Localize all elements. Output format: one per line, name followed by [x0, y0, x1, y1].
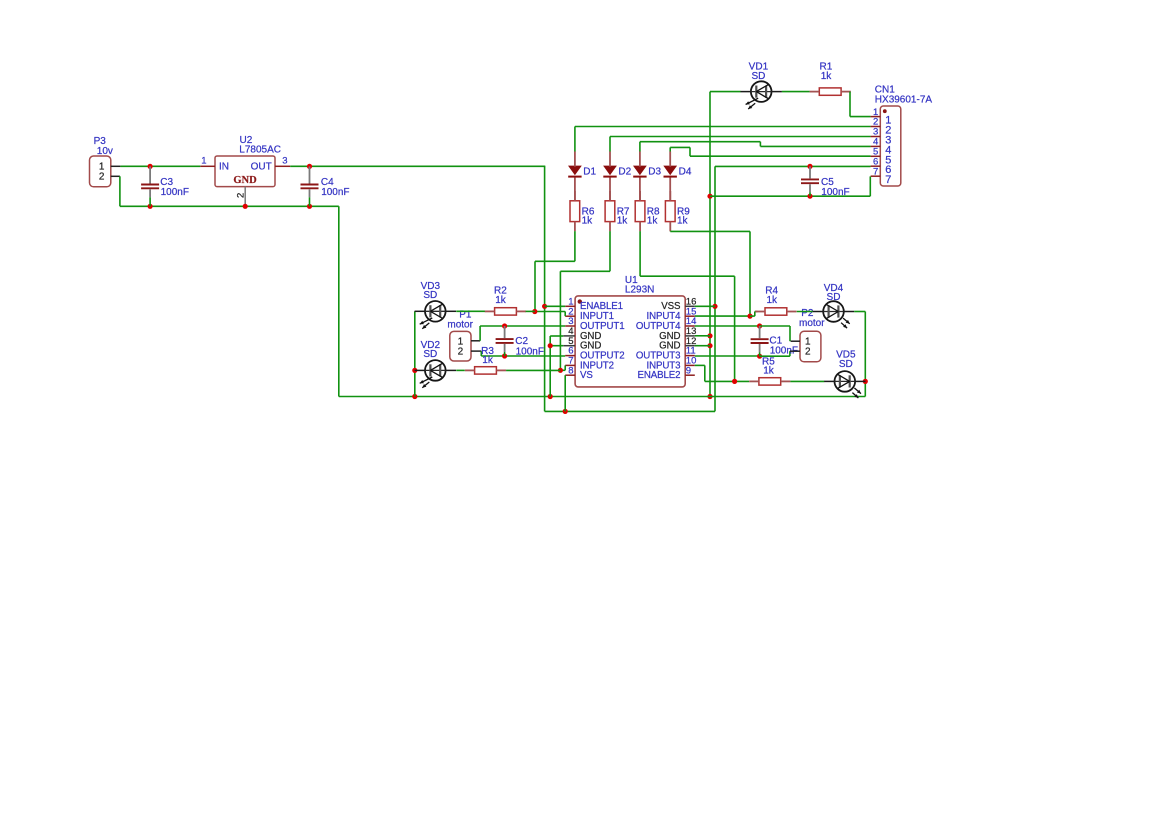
resistor R7	[605, 191, 630, 231]
diode D3	[633, 152, 662, 202]
wire	[550, 335, 563, 337]
wire	[456, 310, 485, 312]
wire	[695, 365, 749, 381]
wire	[709, 92, 711, 397]
wire	[414, 311, 416, 396]
resistor R2	[485, 286, 526, 316]
wire	[760, 326, 790, 341]
connector P1	[447, 310, 481, 361]
connector P3	[90, 136, 121, 187]
junction	[307, 204, 312, 209]
junction	[307, 164, 312, 169]
svg-text:SD: SD	[839, 359, 853, 370]
wire	[710, 91, 741, 93]
wire	[526, 310, 535, 312]
resistor R3	[465, 346, 506, 374]
LED VD2	[415, 340, 456, 388]
svg-text:2: 2	[805, 347, 811, 358]
capacitor C3	[141, 166, 189, 206]
capacitor C2	[496, 326, 544, 357]
wire	[850, 92, 871, 117]
regulator U2	[200, 135, 290, 206]
junction	[707, 333, 712, 338]
wire	[549, 336, 551, 397]
svg-text:D2: D2	[618, 166, 631, 177]
svg-text:GND: GND	[233, 175, 257, 186]
junction	[747, 314, 752, 319]
wire	[120, 176, 339, 206]
svg-text:2: 2	[99, 172, 105, 183]
wire	[506, 369, 560, 371]
wire	[339, 206, 866, 396]
junction	[757, 323, 762, 328]
svg-text:L293N: L293N	[625, 285, 654, 296]
junction	[243, 204, 248, 209]
junction	[863, 379, 868, 384]
junction	[807, 164, 812, 169]
junction	[502, 353, 507, 358]
wire	[782, 91, 810, 93]
wire	[715, 165, 871, 167]
wire	[560, 231, 610, 370]
LED VD5	[824, 350, 865, 399]
junction	[807, 194, 812, 199]
wire	[695, 305, 715, 307]
wire	[695, 355, 760, 357]
svg-text:D1: D1	[583, 166, 596, 177]
wire	[560, 365, 565, 370]
junction	[542, 304, 547, 309]
svg-text:3: 3	[282, 156, 287, 167]
capacitor C1	[751, 326, 798, 357]
wire	[120, 165, 200, 167]
svg-text:2: 2	[458, 347, 464, 358]
resistor R5	[749, 356, 790, 385]
diode D2	[603, 152, 632, 202]
junction	[532, 309, 537, 314]
svg-text:7: 7	[873, 166, 878, 177]
resistor R6	[570, 191, 595, 231]
junction	[707, 194, 712, 199]
wire	[695, 315, 750, 317]
svg-text:P2: P2	[801, 308, 814, 319]
LED VD3	[415, 281, 456, 329]
diode D1	[568, 152, 597, 202]
connector P2	[790, 308, 825, 362]
resistor R4	[755, 286, 796, 316]
wire	[710, 176, 870, 196]
svg-text:1k: 1k	[482, 355, 494, 366]
svg-text:motor: motor	[799, 318, 825, 329]
wire	[695, 335, 710, 337]
wire	[750, 312, 758, 317]
svg-text:100nF: 100nF	[821, 187, 849, 198]
wire	[481, 355, 565, 357]
capacitor C4	[301, 166, 350, 206]
wire	[545, 166, 715, 411]
wire	[290, 165, 545, 167]
svg-text:1k: 1k	[767, 295, 779, 306]
wire	[535, 312, 565, 317]
junction	[548, 343, 553, 348]
svg-text:HX39601-7A: HX39601-7A	[875, 94, 933, 105]
wire	[670, 231, 750, 316]
wire	[480, 325, 565, 327]
wire	[854, 312, 865, 397]
wire	[480, 351, 482, 356]
svg-text:L7805AC: L7805AC	[239, 145, 281, 156]
junction	[412, 368, 417, 373]
svg-text:SD: SD	[423, 349, 437, 360]
wire	[456, 369, 465, 371]
svg-text:OUT: OUT	[251, 162, 272, 173]
svg-text:D3: D3	[648, 166, 661, 177]
junction	[563, 409, 568, 414]
junction	[707, 394, 712, 399]
wire	[564, 375, 566, 411]
capacitor C5	[801, 166, 850, 198]
wire	[695, 325, 760, 327]
wire	[479, 326, 481, 341]
wire	[695, 345, 710, 347]
LED VD4	[813, 283, 854, 328]
svg-text:100nF: 100nF	[321, 187, 349, 198]
junction	[148, 204, 153, 209]
IC U1 L293N	[563, 275, 696, 387]
junction	[757, 354, 762, 359]
junction	[707, 343, 712, 348]
wire	[790, 380, 824, 382]
svg-text:D4: D4	[679, 166, 692, 177]
junction	[412, 394, 417, 399]
junction	[148, 164, 153, 169]
svg-text:1k: 1k	[763, 366, 775, 377]
wire	[760, 351, 790, 356]
svg-text:10v: 10v	[97, 146, 113, 157]
svg-text:SD: SD	[751, 71, 765, 82]
svg-text:1k: 1k	[582, 216, 594, 227]
svg-text:SD: SD	[827, 292, 841, 303]
wire	[670, 147, 870, 156]
svg-text:8: 8	[568, 365, 573, 376]
svg-text:1k: 1k	[495, 295, 507, 306]
diode D4	[663, 152, 692, 202]
svg-text:100nF: 100nF	[161, 187, 189, 198]
svg-text:IN: IN	[219, 162, 229, 173]
svg-text:1k: 1k	[647, 216, 659, 227]
svg-text:1k: 1k	[617, 216, 629, 227]
resistor R9	[665, 191, 690, 231]
junction	[502, 323, 507, 328]
LED VD1	[741, 62, 782, 109]
wire	[535, 231, 575, 311]
svg-text:7: 7	[885, 174, 891, 186]
wire	[797, 311, 813, 313]
svg-text:motor: motor	[447, 320, 473, 331]
wire	[610, 137, 871, 152]
wire	[550, 345, 563, 347]
wire	[545, 305, 566, 307]
svg-text:1: 1	[201, 156, 206, 167]
junction	[548, 394, 553, 399]
resistor R1	[810, 62, 851, 96]
svg-text:VS: VS	[580, 370, 593, 381]
wire	[640, 142, 871, 152]
svg-text:1k: 1k	[677, 216, 689, 227]
resistor R8	[635, 191, 660, 231]
svg-text:9: 9	[686, 365, 691, 376]
junction	[712, 304, 717, 309]
svg-text:SD: SD	[423, 290, 437, 301]
junction	[732, 379, 737, 384]
wire	[640, 231, 735, 381]
svg-text:1k: 1k	[821, 71, 833, 82]
svg-text:100nF: 100nF	[516, 346, 544, 357]
wire	[575, 127, 871, 152]
svg-text:ENABLE2: ENABLE2	[637, 370, 680, 381]
junction	[558, 368, 563, 373]
connector CN1	[871, 85, 933, 187]
